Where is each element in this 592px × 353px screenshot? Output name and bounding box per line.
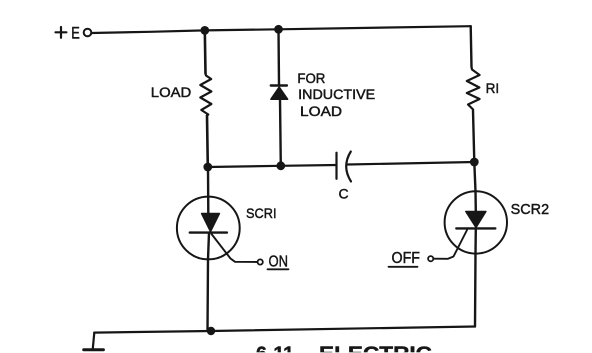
- diode CR (freewheel) cathode bar: [271, 84, 287, 86]
- SCR2 circle: [445, 191, 507, 253]
- svg-text:ELECTRIC: ELECTRIC: [319, 344, 432, 353]
- svg-text:6-11: 6-11: [256, 344, 294, 353]
- resistor R1: [467, 67, 480, 111]
- wire: SCR2 anode lead inside circle: [474, 191, 477, 211]
- SCR1 cathode bar: [190, 231, 227, 233]
- wire: junction down to SCR2 top: [474, 162, 475, 191]
- diode CR triangle (anode, pointing up): [271, 87, 288, 99]
- wire: SCR2 cathode lead down through circle to bottom rail: [474, 228, 477, 326]
- SCR2 cathode bar: [456, 227, 495, 229]
- wire: top rail junction2 to top-right corner: [279, 26, 471, 29]
- wire: left vertical from top junction down to LOAD resistor: [204, 30, 207, 73]
- node junction dot middle (diode bottom): [276, 161, 285, 170]
- ground symbol bar: [84, 348, 104, 351]
- wire: middle rail from left junction to capacitor left plate: [208, 165, 337, 167]
- wire: bottom rail: [94, 327, 475, 333]
- svg-text:ON: ON: [269, 254, 289, 271]
- wire: middle rail from capacitor to right junction: [348, 162, 475, 165]
- wire: SCR1 anode lead inside circle: [207, 167, 210, 214]
- node junction dot middle-right: [470, 158, 479, 167]
- wire: R1 bottom to middle-right junction: [473, 111, 474, 163]
- wire: +E terminal to top-left junction: [92, 30, 205, 33]
- capacitor C right plate (curved): [346, 152, 351, 182]
- wire: diode bottom to middle rail junction: [279, 99, 282, 166]
- svg-text:E: E: [71, 25, 80, 43]
- svg-text:SCRI: SCRI: [246, 205, 277, 221]
- resistor LOAD: [200, 74, 211, 116]
- terminal circle OFF: [428, 256, 433, 261]
- wire: LOAD resistor bottom to middle-left junction: [206, 116, 209, 168]
- svg-text:LOAD: LOAD: [300, 104, 342, 119]
- svg-text:INDUCTIVE: INDUCTIVE: [298, 87, 375, 102]
- node +E terminal label: plus sign: [56, 27, 67, 38]
- wire: diode branch vertical from top junction to diode: [277, 29, 280, 85]
- svg-text:FOR: FOR: [297, 71, 325, 86]
- svg-text:C: C: [339, 186, 349, 202]
- capacitor C left plate: [335, 153, 337, 179]
- node junction dot bottom (SCR1 cathode): [207, 327, 215, 335]
- svg-text:OFF: OFF: [392, 250, 421, 267]
- wire: right vertical from top corner down to R1: [470, 26, 473, 67]
- terminal circle at +E: [84, 29, 92, 37]
- SCR1 circle: [177, 197, 240, 260]
- terminal circle ON: [258, 259, 263, 264]
- node junction dot middle-left: [203, 163, 212, 172]
- SCR2 gate lead: [434, 230, 468, 259]
- node junction dot top-left (load branch): [200, 26, 209, 35]
- SCR1 gate lead: [212, 234, 258, 262]
- ground lead: [93, 333, 95, 349]
- svg-text:LOAD: LOAD: [151, 85, 192, 100]
- svg-text:RI: RI: [486, 80, 500, 96]
- node junction dot top-middle (diode branch): [274, 25, 283, 34]
- SCR2 triangle (anode, pointing down): [466, 212, 486, 228]
- svg-text:SCR2: SCR2: [511, 201, 549, 218]
- wire: top rail junction1 to junction2: [205, 29, 279, 30]
- wire: SCR1 cathode lead down through circle to bottom rail: [208, 233, 210, 331]
- SCR1 triangle (anode, pointing down): [202, 214, 220, 232]
